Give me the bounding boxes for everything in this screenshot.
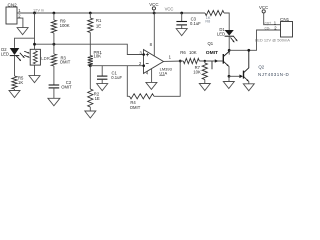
node rail-LDR junction: [33, 12, 36, 15]
svg-text:VCC: VCC: [165, 7, 174, 12]
svg-text:NJT4031N-D: NJT4031N-D: [258, 72, 290, 77]
svg-text:10K: 10K: [189, 50, 197, 55]
wire LDR node bus: [35, 44, 144, 54]
wire collector bus to CN1: [229, 30, 280, 50]
svg-text:CN1: CN1: [280, 17, 290, 22]
node rail-R1 junction: [89, 12, 92, 15]
power VCC symbol mid: [149, 2, 158, 13]
svg-text:Q1: Q1: [208, 41, 214, 46]
svg-text:R8: R8: [205, 19, 210, 23]
wire D2 branch: [15, 38, 35, 48]
node PR1-R2 junction: [89, 64, 92, 67]
ground op-amp: [146, 82, 157, 89]
photoresistor LDR: [24, 49, 50, 65]
svg-text:R6: R6: [180, 50, 186, 55]
ground C1: [97, 84, 108, 91]
wire op-amp output: [164, 60, 184, 62]
ground R2: [85, 111, 96, 118]
svg-text:10K: 10K: [94, 54, 102, 59]
resistor R7 10K: [193, 61, 207, 84]
connector CN1: [265, 17, 293, 37]
svg-text:OMIT: OMIT: [60, 59, 71, 64]
ground R5: [9, 91, 20, 98]
node R4-output junction: [179, 60, 182, 63]
wire op-amp pin8 to rail: [150, 13, 155, 57]
trimmer PR1 10K: [88, 50, 103, 66]
ground R7: [199, 84, 210, 91]
svg-text:OMIT: OMIT: [61, 85, 72, 90]
transistor Q2 NJT4031N-D: [244, 50, 290, 84]
svg-text:R1: R1: [96, 18, 102, 23]
svg-text:LED: LED: [217, 31, 225, 36]
wire Q1 emitter to Q2 base: [229, 75, 243, 79]
resistor R4 OMIT: [127, 61, 180, 110]
wire LDR to ground: [34, 65, 36, 76]
resistor R6 10K: [180, 50, 199, 64]
svg-text:1E: 1E: [96, 24, 101, 29]
ground C2: [48, 98, 60, 106]
svg-text:VCC: VCC: [149, 2, 158, 7]
ground Q1: [223, 82, 234, 89]
ground LDR: [29, 76, 40, 83]
wire D1 to collector node: [228, 37, 230, 55]
svg-text:0.1uF: 0.1uF: [111, 75, 122, 80]
node rail-VCC junction: [153, 12, 156, 15]
capacitor C3 0.1uF: [176, 13, 201, 29]
svg-text:Q2: Q2: [258, 64, 264, 69]
svg-text:cp-: cp-: [265, 26, 271, 31]
svg-text:OMIT: OMIT: [130, 105, 141, 110]
resistor R1 1E: [88, 13, 102, 56]
net label 12V: [33, 7, 44, 12]
wire Q1 emitter to ground: [228, 76, 230, 81]
svg-text:1K: 1K: [18, 80, 23, 85]
wire R5 to ground: [14, 89, 16, 91]
connector CN2: [6, 3, 21, 25]
node rail-R9 junction: [53, 12, 56, 15]
wire op-amp pin4 to ground: [146, 69, 152, 83]
svg-text:U1A: U1A: [159, 70, 167, 75]
svg-text:100K: 100K: [60, 23, 70, 28]
svg-text:LDR: LDR: [41, 56, 50, 61]
resistor R9 100K: [51, 13, 69, 44]
resistor R5 1K: [12, 76, 24, 90]
svg-text:10K: 10K: [193, 69, 201, 74]
node LDR-bus junction: [33, 43, 36, 46]
transistor Q1 OMIT: [206, 41, 229, 76]
wire 12V rail: [17, 12, 205, 14]
node Q2 collector junction: [247, 49, 250, 52]
ground Q2: [243, 84, 254, 91]
ground CN2: [17, 28, 28, 35]
capacitor C2 OMIT: [49, 66, 73, 98]
node R6-R7 junction: [204, 60, 206, 62]
wire D2 to R5: [14, 56, 16, 76]
wire CN2 pin2 to ground: [17, 18, 23, 28]
node D1-Q1-Q2 junction: [228, 49, 231, 52]
svg-text:0.1uF: 0.1uF: [190, 21, 201, 26]
wire PR1 node to op-amp pin2: [90, 65, 143, 67]
node R9-R3 junction: [53, 43, 56, 46]
resistor R2 1E: [88, 66, 100, 111]
LED D1: [217, 27, 237, 42]
wire rail to LDR node: [34, 13, 36, 49]
node rail-C3 junction: [180, 12, 183, 15]
wire R8 to D1: [224, 13, 229, 30]
node Q1 emitter junction: [228, 75, 231, 78]
LED D2: [1, 47, 25, 61]
op-amp U1 LM393: [139, 50, 173, 76]
ground C3: [176, 29, 187, 36]
svg-text:LED: LED: [1, 52, 9, 57]
capacitor C1 0.1uF: [97, 66, 122, 84]
svg-text:1E: 1E: [95, 96, 100, 101]
svg-text:LED 12V @ 500mA: LED 12V @ 500mA: [255, 38, 290, 43]
resistor R3 OMIT: [51, 44, 70, 66]
wire R6 to Q1 base: [199, 59, 222, 69]
svg-text:OMIT: OMIT: [206, 50, 218, 56]
net label VCC rail: [165, 7, 174, 12]
net label LED 12V 500mA: [255, 38, 290, 43]
power VCC symbol right: [259, 5, 281, 25]
svg-text:12V in: 12V in: [33, 7, 44, 12]
resistor R8: [205, 10, 224, 23]
